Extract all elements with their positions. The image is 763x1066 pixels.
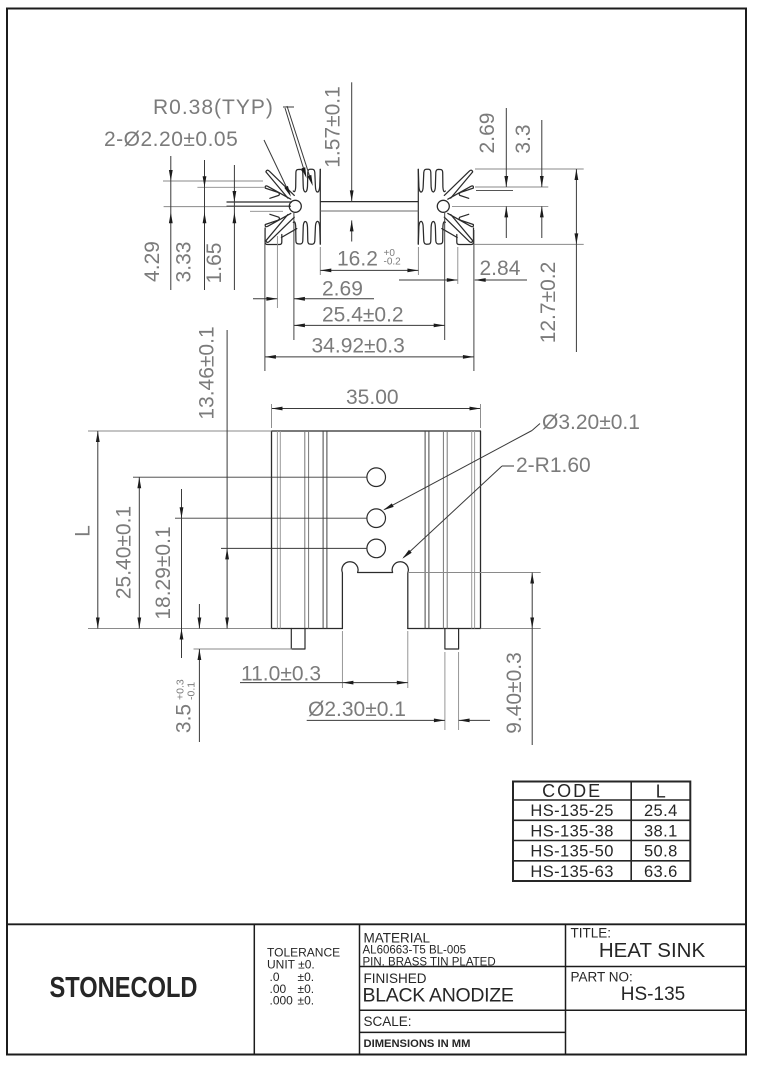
svg-text:2-R1.60: 2-R1.60: [516, 454, 591, 477]
svg-text:HS-135: HS-135: [621, 984, 685, 1005]
extension line from right outer fin tip: [473, 230, 475, 371]
dimension 25.40±0.1: [138, 477, 140, 628]
left cluster inner edge: [319, 169, 321, 244]
extension lines notch depth (9.40): [408, 572, 541, 574]
web between clusters: [320, 201, 418, 203]
dimension 4.29: [170, 156, 172, 290]
svg-text:18.29±0.1: 18.29±0.1: [152, 526, 175, 619]
extension line from right hub: [444, 213, 446, 340]
svg-text:AL60663-T5 BL-005: AL60663-T5 BL-005: [363, 945, 467, 957]
svg-text:CODE: CODE: [542, 781, 602, 801]
right cluster pin hole (2-Ø2.20): [437, 200, 449, 212]
svg-text:HS-135-25: HS-135-25: [530, 802, 613, 820]
dimension 3.5 +0.3/-0.1 (pin length): [198, 604, 200, 629]
svg-text:±0.: ±0.: [298, 994, 315, 1008]
hole 2 (Ø3.20): [367, 509, 386, 528]
leader arrows for R0.38: [283, 106, 294, 108]
extension line from left hub: [293, 213, 295, 340]
dimension 9.40±0.3 (notch depth): [531, 573, 533, 629]
svg-text:L: L: [72, 525, 95, 537]
front view fin edge lines: [276, 431, 278, 629]
mounting notch with corner reliefs 2-R1.60: [342, 562, 408, 629]
heat sink cross-section profile: left fin cluster: [293, 169, 320, 192]
svg-text:16.2: 16.2: [337, 248, 378, 271]
svg-text:1.65: 1.65: [203, 243, 226, 284]
svg-text:Ø3.20±0.1: Ø3.20±0.1: [542, 411, 640, 434]
svg-text:9.40±0.3: 9.40±0.3: [503, 652, 526, 734]
extension lines left of cluster: [163, 180, 263, 182]
svg-text:BLACK ANODIZE: BLACK ANODIZE: [363, 985, 514, 1007]
svg-text:2.69: 2.69: [476, 113, 499, 154]
svg-text:13.46±0.1: 13.46±0.1: [196, 326, 219, 419]
svg-text:SCALE:: SCALE:: [364, 1014, 412, 1029]
svg-text:HS-135-38: HS-135-38: [530, 822, 613, 840]
size table grid: [513, 782, 690, 882]
leader arrow to pin hole: [264, 140, 290, 195]
svg-text:Ø2.30±0.1: Ø2.30±0.1: [308, 698, 406, 721]
svg-text:38.1: 38.1: [644, 822, 678, 840]
svg-text:25.40±0.1: 25.40±0.1: [112, 506, 135, 599]
svg-text:63.6: 63.6: [644, 863, 678, 881]
svg-text:25.4: 25.4: [644, 802, 678, 820]
svg-text:2.69: 2.69: [322, 278, 363, 301]
title block horizontal dividers: [360, 966, 747, 968]
left cluster pin hole (2-Ø2.20): [289, 200, 301, 212]
svg-text:L: L: [656, 782, 666, 802]
dimension 18.29±0.1: [181, 489, 183, 658]
svg-text:MATERIAL: MATERIAL: [364, 931, 431, 946]
extension line from left outer fin tip: [264, 230, 266, 371]
extension line top of profile: [475, 168, 584, 170]
svg-text:3.33: 3.33: [173, 242, 196, 283]
svg-text:PART NO:: PART NO:: [571, 970, 633, 985]
svg-text:DIMENSIONS IN MM: DIMENSIONS IN MM: [364, 1038, 471, 1050]
svg-text:2-Ø2.20±0.05: 2-Ø2.20±0.05: [104, 128, 238, 151]
dimension L (overall length): [97, 431, 99, 629]
extension line fin (2.69/3.3): [475, 186, 548, 188]
hole 1 (Ø3.20): [367, 468, 386, 487]
svg-text:25.4±0.2: 25.4±0.2: [322, 304, 404, 327]
title block top line: [7, 923, 746, 925]
title block vertical dividers: [253, 924, 255, 1054]
dimension 1.65: [233, 165, 235, 290]
right solder pin: [445, 629, 459, 650]
svg-text:.000: .000: [270, 994, 294, 1008]
left solder pin: [291, 629, 305, 650]
extension line x=277 (2.69 top): [276, 236, 278, 308]
svg-text:4.29: 4.29: [141, 241, 164, 282]
svg-text:3.5: 3.5: [173, 704, 196, 733]
svg-text:50.8: 50.8: [644, 843, 678, 861]
svg-text:1.57±0.1: 1.57±0.1: [322, 86, 345, 168]
svg-text:11.0±0.3: 11.0±0.3: [241, 663, 321, 686]
heat sink cross-section profile: right fin cluster: [418, 169, 445, 192]
svg-text:3.3: 3.3: [512, 124, 535, 153]
svg-text:HS-135-63: HS-135-63: [530, 863, 613, 881]
extension line pin bottom: [194, 648, 293, 650]
extension lines left (L dim): [88, 430, 272, 432]
svg-text:35.00: 35.00: [346, 386, 399, 409]
svg-text:12.7±0.2: 12.7±0.2: [537, 262, 560, 344]
extension line from hole 2: [175, 517, 367, 519]
svg-text:R0.38(TYP): R0.38(TYP): [153, 96, 274, 119]
dimension 3.33: [204, 160, 206, 290]
extension line bottom of profile: [475, 243, 584, 245]
svg-text:HS-135-50: HS-135-50: [530, 843, 613, 861]
front view outline: [272, 431, 481, 629]
svg-text:STONECOLD: STONECOLD: [50, 972, 198, 1004]
dimension 13.46±0.1: [226, 330, 228, 629]
extension lines pin diameter: [444, 652, 446, 730]
svg-text:-0.1: -0.1: [186, 682, 198, 700]
right cluster inner edge: [417, 169, 419, 244]
svg-text:-0.2: -0.2: [384, 257, 402, 268]
svg-text:HEAT SINK: HEAT SINK: [599, 939, 706, 962]
hole 3 (Ø3.20): [367, 539, 386, 558]
svg-text:PIN. BRASS TIN PLATED: PIN. BRASS TIN PLATED: [363, 956, 496, 968]
extension lines notch width: [341, 631, 343, 688]
svg-text:2.84: 2.84: [480, 257, 521, 280]
extension line from hole 3: [221, 547, 367, 549]
svg-text:34.92±0.3: 34.92±0.3: [312, 335, 405, 358]
extension line from hole 1: [133, 476, 367, 478]
extension lines from web inner edges (16.2): [319, 247, 321, 275]
